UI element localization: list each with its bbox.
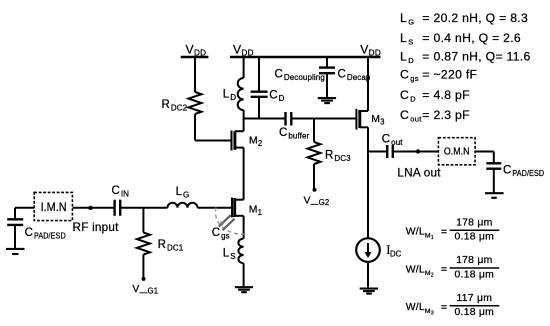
svg-text:Cgs: Cgs [400,68,419,84]
svg-text:=: = [441,302,447,313]
svg-text:LD: LD [223,88,236,102]
svg-text:178 μm: 178 μm [456,218,492,229]
svg-text:LS: LS [223,248,236,262]
svg-text:VDD: VDD [360,42,381,57]
svg-text:=: = [422,108,429,122]
svg-text:CD: CD [269,89,284,103]
svg-text:=: = [441,265,447,276]
svg-text:VDD: VDD [233,42,254,57]
svg-text:0.4 nH, Q = 2.6: 0.4 nH, Q = 2.6 [434,31,522,45]
svg-text:=: = [422,88,429,102]
svg-text:0.18 μm: 0.18 μm [455,232,495,243]
svg-text:W/LM2: W/LM2 [406,264,434,278]
svg-text:M2: M2 [249,135,262,148]
svg-text:Cgs: Cgs [212,227,230,241]
svg-text:=: = [422,50,429,64]
svg-text:117 μm: 117 μm [457,293,493,304]
svg-text:CPAD/ESD: CPAD/ESD [503,165,544,179]
svg-text:O.M.N: O.M.N [444,147,470,158]
svg-text:CDecap: CDecap [338,69,371,83]
svg-text:DC: DC [390,249,402,258]
svg-text:~220 fF: ~220 fF [434,68,478,82]
svg-text:LG: LG [400,11,414,27]
svg-text:VDD: VDD [186,42,207,57]
svg-text:RDC1: RDC1 [158,239,184,253]
svg-text:CIN: CIN [112,185,130,199]
svg-text:LG: LG [176,186,190,200]
svg-text:M1: M1 [249,204,262,217]
svg-text:=: = [422,31,429,45]
svg-text:W/LM1: W/LM1 [406,227,434,241]
svg-text:=: = [422,68,429,82]
svg-text:RF input: RF input [73,221,120,234]
svg-text:2.3 pF: 2.3 pF [434,108,470,122]
svg-text:CD: CD [400,88,416,104]
svg-text:4.8 pF: 4.8 pF [434,88,470,102]
svg-text:W/LM3: W/LM3 [406,302,434,316]
svg-text:V—G2: V—G2 [304,195,330,208]
svg-text:LNA out: LNA out [397,167,441,180]
svg-text:LS: LS [400,31,414,47]
svg-text:178 μm: 178 μm [456,255,492,266]
svg-text:M3: M3 [371,114,384,127]
svg-text:RDC2: RDC2 [162,99,188,113]
svg-text:LD: LD [400,50,414,66]
svg-text:=: = [441,227,447,238]
svg-text:0.18 μm: 0.18 μm [455,269,495,280]
svg-text:Cout: Cout [382,134,403,148]
svg-text:CPAD/ESD: CPAD/ESD [25,227,66,241]
svg-text:Cout: Cout [400,108,422,124]
svg-text:V—G1: V—G1 [132,284,158,297]
svg-text:CDecoupling: CDecoupling [275,69,325,83]
svg-text:I.M.N: I.M.N [41,200,67,214]
svg-text:=: = [422,11,429,25]
svg-text:Cbuffer: Cbuffer [279,127,310,141]
svg-text:20.2 nH, Q = 8.3: 20.2 nH, Q = 8.3 [434,11,529,25]
svg-text:RDC3: RDC3 [325,149,351,163]
svg-text:0.87 nH, Q= 11.6: 0.87 nH, Q= 11.6 [434,50,531,64]
svg-text:0.18 μm: 0.18 μm [455,307,495,318]
